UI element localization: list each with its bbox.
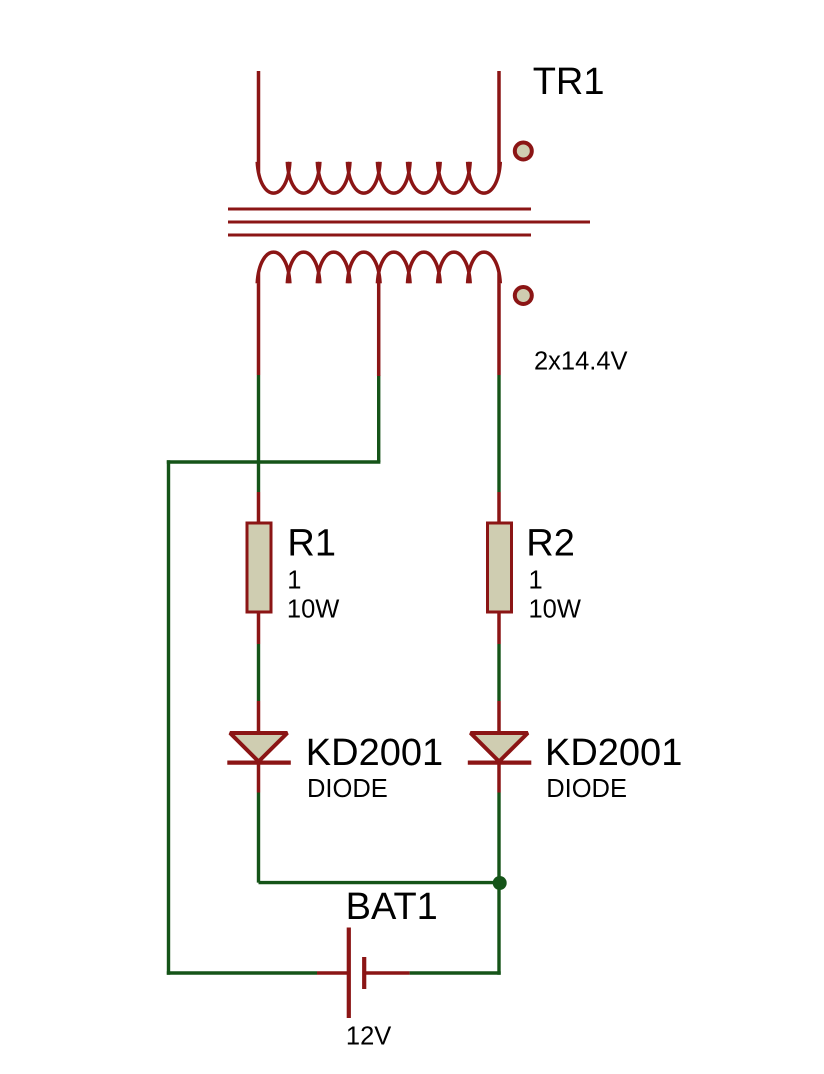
- wire: horizontal from left rail to center tap: [167, 460, 381, 463]
- wire: left rail vertical: [167, 460, 170, 974]
- battery BAT1 long plate: [347, 928, 351, 1019]
- label R1: [287, 523, 336, 565]
- diode D2 cathode pin: [497, 762, 501, 793]
- label R1 value 1: [287, 567, 301, 595]
- transformer TR1 core (3 lines, middle extended): [228, 209, 590, 235]
- battery BAT1 short plate: [362, 957, 366, 989]
- svg-text:R1: R1: [287, 523, 336, 565]
- label DIODE (left): [307, 775, 388, 803]
- wire: battery left segment: [167, 971, 317, 974]
- label KD2001 (left): [306, 732, 443, 774]
- battery BAT1 positive lead: [366, 971, 410, 975]
- wire: bottom horizontal to junction: [259, 881, 500, 884]
- transformer TR1 primary winding: [257, 71, 500, 193]
- diode D1 cathode pin: [257, 762, 261, 793]
- wire: center tap vertical drop: [377, 375, 380, 462]
- resistor R2 bottom pin: [497, 612, 501, 644]
- resistor R2 top pin: [497, 492, 501, 523]
- svg-text:KD2001: KD2001: [306, 732, 443, 774]
- svg-text:DIODE: DIODE: [546, 775, 627, 803]
- svg-text:10W: 10W: [529, 596, 581, 624]
- resistor R1 body: [247, 523, 271, 612]
- label R2: [526, 523, 575, 565]
- wire: R2 to D2: [497, 644, 500, 701]
- phase dot (secondary side): [515, 287, 532, 304]
- label DIODE (right): [546, 775, 627, 803]
- wire: right secondary lead down to R2: [497, 375, 500, 492]
- wire: D1 cathode down: [257, 793, 260, 883]
- resistor R1 bottom pin: [257, 612, 261, 644]
- svg-text:1: 1: [529, 567, 543, 595]
- label BAT1: [346, 886, 438, 928]
- transformer TR1 secondary winding: [257, 252, 500, 375]
- diode D1 triangle: [230, 733, 287, 762]
- label R2 value 1: [529, 567, 543, 595]
- wire: R1 to D1: [257, 644, 260, 701]
- wire: D2 cathode down to battery positive: [497, 793, 500, 975]
- label 12V: [346, 1022, 391, 1050]
- phase dot (primary side): [515, 143, 532, 160]
- resistor R2 body: [488, 523, 512, 612]
- label R1 rating 10W: [287, 596, 339, 624]
- diode D1 cathode bar: [227, 760, 290, 764]
- svg-text:2x14.4V: 2x14.4V: [534, 348, 628, 376]
- diode D1 anode pin: [257, 701, 261, 732]
- diode D2 anode pin: [497, 701, 501, 732]
- svg-text:DIODE: DIODE: [307, 775, 388, 803]
- svg-text:KD2001: KD2001: [545, 732, 682, 774]
- svg-text:TR1: TR1: [533, 61, 605, 103]
- svg-text:R2: R2: [526, 523, 575, 565]
- wire: battery right segment: [410, 971, 501, 974]
- diode D2 triangle: [471, 733, 528, 762]
- wire: left secondary lead down to R1: [257, 375, 260, 492]
- label 2x14.4V: [534, 348, 628, 376]
- svg-text:1: 1: [287, 567, 301, 595]
- svg-text:10W: 10W: [287, 596, 339, 624]
- label R2 rating 10W: [529, 596, 581, 624]
- diode D2 cathode bar: [468, 760, 532, 764]
- label KD2001 (right): [545, 732, 682, 774]
- battery BAT1 negative lead: [317, 971, 347, 975]
- pin: transformer secondary center tap: [377, 283, 381, 376]
- label TR1: [533, 61, 605, 103]
- junction dot at D2 cathode node: [493, 876, 507, 890]
- svg-text:BAT1: BAT1: [346, 886, 438, 928]
- svg-text:12V: 12V: [346, 1022, 391, 1050]
- resistor R1 top pin: [257, 492, 261, 523]
